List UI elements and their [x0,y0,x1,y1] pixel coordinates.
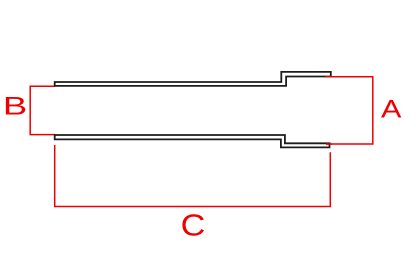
svg-text:B: B [3,92,27,120]
svg-text:A: A [381,95,402,123]
svg-text:C: C [181,209,206,242]
